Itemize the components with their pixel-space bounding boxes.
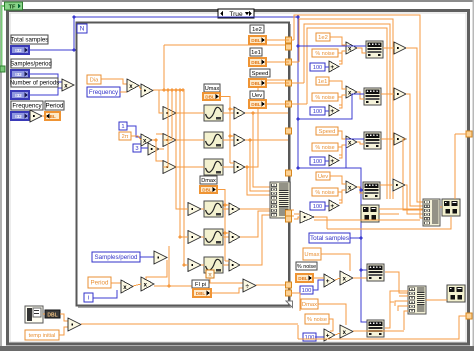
svg-text:Dmax: Dmax <box>201 178 216 184</box>
svg-text:DBL: DBL <box>298 276 308 281</box>
svg-text:100: 100 <box>305 335 315 341</box>
svg-text:Umax: Umax <box>304 252 319 258</box>
svg-text:1e1: 1e1 <box>318 79 328 85</box>
svg-text:DBL: DBL <box>251 60 261 65</box>
svg-text:100: 100 <box>313 159 322 165</box>
svg-text:+: + <box>330 108 334 115</box>
svg-text:I32: I32 <box>15 114 22 119</box>
svg-text:% noise: % noise <box>315 190 334 196</box>
svg-text:temp initial: temp initial <box>29 333 56 339</box>
svg-text:Number of periods: Number of periods <box>10 81 59 87</box>
svg-text:DBL: DBL <box>251 38 261 43</box>
svg-text:Speed: Speed <box>319 129 336 135</box>
svg-text:i: i <box>88 295 89 302</box>
svg-text:DBL: DBL <box>47 312 57 318</box>
svg-text:Period: Period <box>46 103 64 110</box>
svg-text:DBL: DBL <box>251 102 261 107</box>
svg-text:Umax: Umax <box>205 86 220 92</box>
svg-text:Dia: Dia <box>90 78 99 84</box>
svg-text:Speed: Speed <box>252 71 269 77</box>
svg-text:+: + <box>330 158 334 165</box>
svg-text:Total samples: Total samples <box>310 235 349 242</box>
svg-text:Uev: Uev <box>318 174 328 180</box>
svg-text:π: π <box>208 272 212 278</box>
svg-text:100: 100 <box>313 109 322 115</box>
svg-text:100: 100 <box>302 288 312 294</box>
svg-text:100: 100 <box>313 204 322 210</box>
svg-text:FI pi: FI pi <box>195 282 206 288</box>
svg-text:DBL: DBL <box>205 94 215 99</box>
svg-text:% noise: % noise <box>315 145 334 151</box>
svg-text:I32: I32 <box>15 48 22 53</box>
svg-text:Samples/period: Samples/period <box>10 62 52 68</box>
svg-text:1: 1 <box>121 124 124 130</box>
svg-text:1e2: 1e2 <box>252 27 262 33</box>
svg-text:TF: TF <box>9 4 16 10</box>
svg-text:Frequency: Frequency <box>89 89 119 96</box>
svg-text:DBL: DBL <box>196 291 206 296</box>
svg-text:2π: 2π <box>122 134 129 140</box>
svg-text:% noise: % noise <box>315 95 334 101</box>
svg-text:100: 100 <box>313 65 322 71</box>
svg-text:1e1: 1e1 <box>251 50 261 56</box>
svg-text:N: N <box>80 26 85 33</box>
svg-text:Total samples: Total samples <box>11 37 49 44</box>
svg-text:Dmax: Dmax <box>302 302 317 308</box>
svg-text:÷: ÷ <box>246 283 250 290</box>
svg-text:+: + <box>330 64 334 71</box>
svg-text:Uev: Uev <box>252 93 262 99</box>
svg-text:% noise: % noise <box>297 264 316 270</box>
svg-text:1e2: 1e2 <box>318 35 328 41</box>
svg-text:Period: Period <box>91 280 109 287</box>
svg-text:+: + <box>330 203 334 210</box>
svg-text:% noise: % noise <box>315 51 334 57</box>
svg-text:I32: I32 <box>15 93 22 98</box>
svg-text:I32: I32 <box>15 72 22 77</box>
svg-text:Samples/period: Samples/period <box>95 254 139 261</box>
svg-text:3: 3 <box>135 146 138 152</box>
svg-text:+: + <box>326 332 330 339</box>
svg-text:DBL: DBL <box>251 81 261 86</box>
svg-text:+: + <box>326 278 330 285</box>
svg-text:DBL: DBL <box>202 187 212 192</box>
svg-text:Frequency: Frequency <box>12 103 42 110</box>
svg-text:% noise: % noise <box>307 317 327 323</box>
